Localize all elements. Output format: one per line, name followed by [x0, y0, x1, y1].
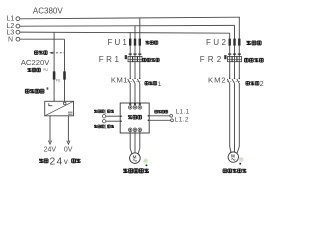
- wire VFD V to motor1: [134, 133, 136, 153]
- tiny label above L1.1 wire (jie zhen dong qi): [155, 110, 158, 113]
- svg-text:AC220V: AC220V: [21, 58, 51, 67]
- node L1.2: [171, 119, 174, 122]
- terminal forward: [102, 115, 105, 118]
- label mixer motor (jiao ban zhan dian ji): [123, 168, 127, 173]
- fuse FU1 b: [134, 39, 136, 46]
- label VFD1 reverse (bian pin qi 1 fan zhuan): [94, 125, 97, 128]
- terminal L1: [16, 17, 20, 21]
- svg-text:24: 24: [50, 156, 64, 167]
- wire L2 drop to motor2 phase b: [234, 26, 236, 153]
- arrowhead 0V: [67, 141, 70, 145]
- svg-text:KM2: KM2: [208, 76, 227, 85]
- wire L3 drop to VFD phase a: [129, 33, 131, 103]
- fuse FU1 a: [129, 39, 131, 46]
- contactor KM2 contact c: [239, 78, 240, 79]
- wire from N down to power supply: [64, 39, 66, 101]
- wire N horizontal to drop: [20, 38, 65, 40]
- svg-text:24V: 24V: [44, 146, 57, 153]
- label VFD1 forward (bian pin qi 1 zheng zhuan): [94, 110, 97, 113]
- VFD output terminal U: [128, 128, 132, 132]
- tiny mark right of label: [47, 87, 49, 89]
- VFD input terminal R: [129, 103, 131, 105]
- svg-text:0V: 0V: [64, 146, 73, 153]
- svg-text:L1: L1: [7, 16, 15, 23]
- terminal L2: [16, 24, 20, 28]
- label switching power supply (kai guan dian yuan): [25, 89, 29, 93]
- svg-text:AC380V: AC380V: [33, 7, 63, 16]
- svg-text:FU: FU: [56, 79, 61, 83]
- label contactor 1 (jie chu qi 1): [145, 82, 148, 85]
- wire L2: [20, 24, 235, 27]
- svg-text:L1.2: L1.2: [175, 117, 189, 124]
- svg-text:FU: FU: [44, 68, 49, 72]
- FR2 left mark: [224, 55, 226, 59]
- svg-text:KM1: KM1: [111, 76, 128, 85]
- svg-text:L3: L3: [7, 30, 15, 37]
- AC mark: [49, 103, 53, 106]
- wire from L3 down to power supply: [53, 32, 55, 101]
- indicator green M1: [143, 158, 149, 164]
- svg-text:1: 1: [158, 81, 162, 88]
- power supply diagonal: [45, 101, 74, 116]
- VFD input terminal T: [139, 103, 141, 105]
- power supply box: [45, 101, 74, 116]
- svg-text:FU2: FU2: [206, 38, 228, 47]
- thermal relay FR1 heater cells: [128, 57, 132, 62]
- terminal N: [16, 37, 20, 41]
- terminal L3: [16, 30, 20, 34]
- wire 24V output: [49, 116, 51, 142]
- wire L1 drop to VFD phase c: [139, 18, 141, 103]
- label breaker (duan lu qi): [34, 51, 38, 55]
- svg-text:FR2: FR2: [200, 55, 225, 64]
- VFD input terminal S: [134, 103, 136, 105]
- wire L1.2: [149, 119, 170, 121]
- thermal relay FR2 heater cells: [228, 57, 232, 62]
- contactor KM1 contact b: [134, 78, 135, 79]
- thermal relay FR2 heater ticks: [228, 53, 241, 55]
- wire VFD U to motor1: [130, 133, 132, 154]
- label contactor 2: [246, 82, 250, 86]
- VFD output terminal W: [138, 128, 142, 132]
- FR1 left mark: [125, 55, 127, 59]
- VFD box U1: [120, 103, 149, 133]
- contactor KM1 contact a: [130, 78, 131, 79]
- fuse FU2 b: [233, 39, 235, 46]
- VFD left terminal dots: [120, 115, 122, 117]
- wire L2 drop to VFD phase b: [134, 26, 136, 103]
- contactor KM1 contact c: [139, 78, 140, 79]
- KM2 linkage dashed: [227, 80, 241, 82]
- wire L3 drop to motor2 phase a: [230, 33, 231, 153]
- indicator green M2: [238, 157, 244, 163]
- svg-text:M: M: [231, 154, 235, 159]
- wire 0V output: [67, 116, 69, 142]
- svg-text:2: 2: [260, 81, 264, 88]
- svg-text:FU1: FU1: [108, 38, 129, 47]
- breaker pointer dashed arrow: [49, 52, 52, 54]
- fuse FU1 c: [139, 39, 141, 46]
- wire reverse: [106, 120, 120, 122]
- VFD right terminal dots: [148, 115, 150, 117]
- wire L1.1: [149, 115, 170, 117]
- VFD output terminal V: [133, 128, 137, 132]
- motor M2: [228, 152, 238, 162]
- node L1.1: [170, 114, 173, 117]
- svg-text:1: 1: [104, 124, 107, 130]
- label DC 24V power (zhi liu 24V dian yuan): [39, 159, 43, 163]
- fuse FU5: [53, 71, 56, 79]
- label fuse right of FU1: [145, 41, 149, 45]
- VFD label (bian pin qi): [128, 115, 132, 119]
- svg-text:M: M: [133, 155, 137, 160]
- label conveyor motor (chuan song dai dian ji): [223, 169, 227, 173]
- svg-text:FR1: FR1: [99, 55, 122, 64]
- fuse FU2 a: [229, 39, 231, 46]
- svg-text:N: N: [8, 37, 13, 44]
- fuse FU6: [63, 71, 66, 79]
- label thermal relay (re ji dian qi): [143, 58, 146, 61]
- label fuse (rong duan qi): [27, 68, 31, 72]
- contactor KM2 contact b: [234, 78, 235, 79]
- wire L1: [20, 17, 240, 19]
- wire forward: [106, 115, 120, 117]
- fuse FU2 c: [238, 39, 240, 46]
- label fuse right of FU2: [246, 41, 250, 45]
- svg-text:L1.1: L1.1: [176, 108, 190, 115]
- wire L3: [20, 32, 230, 33]
- motor M1: [130, 153, 141, 164]
- thermal relay FR1 heater ticks: [129, 53, 142, 55]
- arrowhead 24V: [48, 141, 51, 145]
- KM1 linkage dashed: [128, 80, 142, 82]
- DC mark: [68, 112, 73, 114]
- wire L1 drop to motor2 phase c: [237, 17, 239, 153]
- terminal reverse: [102, 120, 105, 123]
- contactor KM2 contact a: [229, 78, 230, 79]
- label thermal relay 2: [245, 58, 249, 62]
- wire VFD W to motor1: [138, 133, 140, 154]
